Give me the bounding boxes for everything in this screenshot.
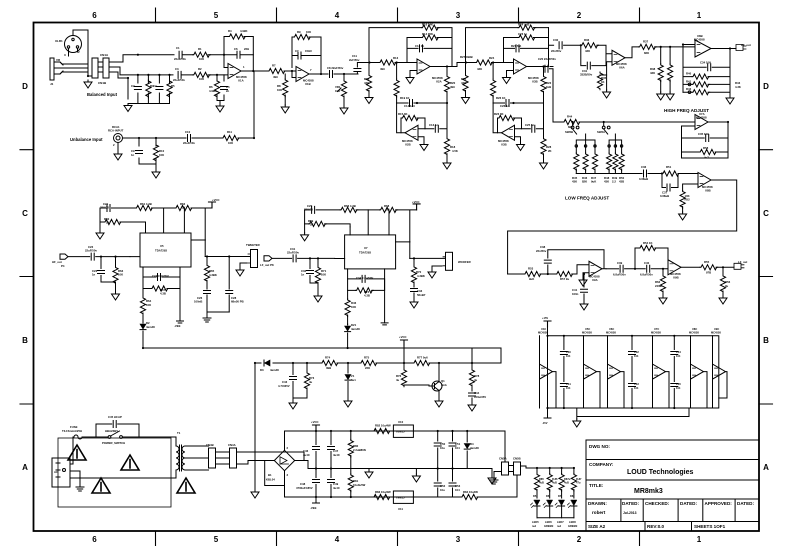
- svg-text:4.3K: 4.3K: [735, 85, 741, 89]
- feedback cap C6 22pF: [224, 55, 253, 71]
- svg-text:R84 10u4W: R84 10u4W: [463, 490, 478, 494]
- +in ground: [607, 62, 612, 90]
- neutral + earth: [70, 471, 176, 484]
- svg-text:C60: C60: [566, 350, 571, 354]
- svg-text:100n: 100n: [572, 292, 579, 296]
- svg-text:C4: C4: [153, 84, 157, 88]
- svg-text:D3: D3: [260, 368, 264, 372]
- svg-text:10K: 10K: [306, 30, 311, 34]
- gnd left of CN: [494, 472, 502, 478]
- resistor R1 top: [183, 54, 224, 56]
- svg-text:TITLE:: TITLE:: [589, 483, 604, 488]
- svg-text:4.99K: 4.99K: [209, 89, 216, 93]
- decoupling caps: [563, 336, 565, 350]
- resistor R5: [167, 80, 172, 98]
- svg-text:9uK: 9uK: [591, 180, 596, 184]
- svg-text:R15 3K: R15 3K: [398, 112, 407, 116]
- svg-text:SW2B: SW2B: [565, 130, 573, 134]
- svg-text:LED6: LED6: [545, 520, 552, 524]
- svg-text:10K: 10K: [159, 153, 164, 157]
- series resistor R82: [373, 428, 391, 433]
- svg-text:43K: 43K: [461, 81, 466, 85]
- svg-text:R16 24K: R16 24K: [422, 23, 433, 27]
- mid-rail ground: [368, 469, 370, 471]
- shunt C23/R63 to gnd: [100, 257, 102, 269]
- wires to filter: [115, 55, 174, 78]
- svg-text:-15V: -15V: [542, 421, 548, 425]
- svg-text:10u: 10u: [440, 446, 445, 450]
- svg-text:+VCC: +VCC: [311, 420, 319, 424]
- wires jack to CN boxes: [62, 30, 92, 76]
- svg-text:4.3BK: 4.3BK: [417, 274, 425, 278]
- svg-text:C8 22uF/50v: C8 22uF/50v: [327, 66, 344, 70]
- svg-text:C2: C2: [131, 84, 135, 88]
- svg-text:P4: P4: [61, 264, 65, 268]
- svg-text:Balanced Input: Balanced Input: [87, 92, 118, 97]
- svg-text:43K: 43K: [477, 67, 482, 71]
- svg-text:C40: C40: [644, 261, 650, 265]
- -15 caps: [437, 488, 439, 497]
- svg-text:D: D: [22, 82, 28, 91]
- resistor array 1: [576, 134, 595, 174]
- svg-text:WOOFER: WOOFER: [458, 260, 471, 264]
- svg-text:POWER_SWITCH: POWER_SWITCH: [102, 441, 125, 445]
- feed resistor R44: [553, 121, 563, 123]
- svg-text:4.3B: 4.3B: [364, 294, 370, 298]
- svg-text:R77 0u6: R77 0u6: [417, 356, 428, 360]
- top rail / bottom rail: [128, 75, 170, 104]
- output + feedback box: [508, 180, 737, 274]
- wire +15 to CN5A: [504, 431, 506, 462]
- svg-text:2uF/50v: 2uF/50v: [349, 58, 360, 62]
- svg-text:MC4558: MC4558: [538, 331, 548, 335]
- feedback resistor R54: [635, 248, 668, 269]
- title block: [586, 440, 759, 531]
- resistor R75: [360, 360, 378, 365]
- svg-text:B: B: [22, 336, 28, 345]
- svg-text:T3.15mmA/25H: T3.15mmA/25H: [62, 429, 82, 433]
- svg-text:56nB7: 56nB7: [417, 293, 426, 297]
- resistor R73 vertical: [306, 363, 308, 372]
- svg-text:+VCC: +VCC: [412, 200, 420, 204]
- stage2 output cap C20: [543, 66, 549, 68]
- svg-text:LF_out: LF_out: [738, 260, 747, 264]
- svg-text:22uF/50v: 22uF/50v: [85, 249, 97, 253]
- svg-text:3: 3: [456, 11, 461, 20]
- svg-text:4u4C: 4u4C: [333, 486, 340, 490]
- svg-text:3: 3: [456, 535, 461, 544]
- svg-text:R44: R44: [567, 115, 573, 119]
- +15 caps + diode: [437, 431, 439, 441]
- op-amp U1A: [228, 64, 241, 79]
- svg-text:T1: T1: [177, 431, 181, 435]
- power switch: [108, 436, 111, 439]
- svg-text:100nB: 100nB: [194, 300, 202, 304]
- svg-text:+VCC: +VCC: [212, 198, 220, 202]
- series cap C22: [91, 253, 94, 260]
- svg-text:LF_out P8: LF_out P8: [260, 263, 274, 267]
- svg-text:R58: R58: [703, 146, 709, 150]
- svg-text:B1: B1: [268, 473, 272, 477]
- svg-text:2K: 2K: [182, 206, 186, 210]
- shunt resistor + cap at right: [471, 363, 473, 369]
- svg-text:R61 4.3B: R61 4.3B: [140, 202, 152, 206]
- filter caps row 1: [315, 431, 317, 445]
- svg-text:R13: R13: [393, 56, 399, 60]
- output riser + series resistor R37: [625, 47, 639, 58]
- svg-text:D6: D6: [546, 494, 550, 498]
- svg-text:82K: 82K: [582, 180, 587, 184]
- svg-text:R.86: R.86: [552, 477, 558, 481]
- svg-text:2: 2: [577, 535, 582, 544]
- op-amp U9B: [668, 260, 681, 275]
- svg-text:104: 104: [455, 488, 460, 492]
- op-amp U7A (low freq): [695, 115, 708, 130]
- C9 / R10 to ground: [139, 138, 156, 170]
- shunt resistor at output: [722, 267, 724, 275]
- svg-text:DATED:: DATED:: [622, 501, 639, 506]
- svg-text:A: A: [763, 463, 769, 472]
- svg-text:U2B: U2B: [405, 143, 411, 147]
- vertical feed to PSU: [254, 363, 256, 438]
- svg-text:1n: 1n: [92, 273, 96, 277]
- op-amp U1B: [296, 67, 309, 82]
- svg-text:R66 4.3B: R66 4.3B: [344, 204, 356, 208]
- R35 vertical under opamp: [600, 74, 607, 76]
- svg-text:A: A: [22, 463, 28, 472]
- shunt resistor under inter-cap node: [662, 269, 664, 275]
- signal wire: [123, 137, 187, 139]
- svg-text:4.3B: 4.3B: [160, 292, 166, 296]
- TWEETER connector: [248, 250, 258, 268]
- svg-text:4.5K: 4.5K: [452, 149, 458, 153]
- +in shunt resistor to gnd: [683, 184, 698, 191]
- svg-text:U8B: U8B: [705, 188, 711, 192]
- svg-text:9u: 9u: [725, 284, 729, 288]
- svg-text:4am48: 4am48: [146, 325, 155, 329]
- series cap C30: [559, 42, 562, 49]
- ground: [84, 80, 92, 88]
- svg-text:C14 1n3: C14 1n3: [404, 104, 415, 108]
- svg-text:C23 1n: C23 1n: [518, 32, 527, 36]
- svg-text:10K: 10K: [228, 141, 233, 145]
- svg-text:4uB: 4uB: [552, 481, 557, 485]
- svg-text:43K: 43K: [572, 180, 577, 184]
- input resistor R53: [508, 273, 524, 275]
- bridge output wires: [285, 431, 431, 497]
- svg-text:U9B: U9B: [673, 276, 679, 280]
- svg-text:R75: R75: [364, 356, 370, 360]
- zener Z1: [347, 363, 349, 373]
- svg-text:U6A: U6A: [619, 65, 625, 69]
- svg-text:2K: 2K: [106, 221, 110, 225]
- svg-text:CN4A: CN4A: [228, 443, 236, 447]
- svg-text:104: 104: [634, 386, 639, 390]
- output to tweeter: [205, 256, 250, 258]
- resistor R36: [581, 43, 599, 48]
- lower jog + ground: [577, 408, 689, 419]
- svg-text:U4C: U4C: [541, 327, 546, 331]
- input wires: [217, 55, 228, 75]
- svg-text:R41: R41: [686, 79, 692, 83]
- svg-text:MC4558: MC4558: [651, 331, 661, 335]
- svg-text:U3B: U3B: [501, 143, 507, 147]
- svg-text:22U/25: 22U/25: [100, 206, 109, 210]
- svg-text:GREEN: GREEN: [568, 524, 577, 528]
- warning triangles: [68, 445, 86, 460]
- cap C2: [134, 87, 141, 90]
- svg-text:U9A: U9A: [592, 278, 598, 282]
- svg-text:C34 2.2u/50V: C34 2.2u/50V: [356, 276, 373, 280]
- svg-text:DATED:: DATED:: [680, 501, 697, 506]
- buffer amps: [540, 336, 728, 408]
- svg-text:4u4C: 4u4C: [333, 453, 340, 457]
- svg-text:82K: 82K: [644, 51, 649, 55]
- svg-text:LED8: LED8: [569, 520, 576, 524]
- svg-text:1K: 1K: [601, 80, 605, 84]
- svg-text:R40: R40: [686, 72, 692, 76]
- svg-text:10K: 10K: [146, 303, 151, 307]
- svg-text:C39: C39: [617, 261, 623, 265]
- RCA jack RCA1: [114, 134, 123, 143]
- svg-text:R54 1K: R54 1K: [643, 241, 652, 245]
- feedback ladder: [683, 45, 730, 93]
- svg-text:10K: 10K: [351, 305, 356, 309]
- svg-text:R24: R24: [489, 56, 495, 60]
- svg-text:4am48: 4am48: [351, 327, 360, 331]
- svg-text:4: 4: [335, 11, 340, 20]
- diode D3: [255, 362, 261, 364]
- connector CN4B / CN4A: [209, 448, 216, 468]
- svg-text:104: 104: [455, 446, 460, 450]
- svg-text:1kB: 1kB: [546, 85, 551, 89]
- +VCC feed: [401, 340, 408, 346]
- AC inlet: [52, 458, 70, 487]
- svg-text:10K: 10K: [118, 273, 123, 277]
- svg-text:R27 499B: R27 499B: [460, 55, 473, 59]
- shunt to gnd: [309, 258, 311, 268]
- svg-text:DWG NO:: DWG NO:: [589, 444, 610, 449]
- svg-text:R26 1K: R26 1K: [496, 96, 505, 100]
- +VCC bar: [313, 425, 320, 431]
- output wire: [241, 70, 268, 72]
- R8 10K vertical to ground: [284, 74, 286, 79]
- output to woofer: [410, 257, 446, 259]
- bottom leg diode to rail: [142, 322, 144, 323]
- resistor R76 vertical: [403, 363, 405, 369]
- svg-text:332B/50v: 332B/50v: [580, 73, 593, 77]
- svg-text:MR8mk3: MR8mk3: [634, 488, 663, 495]
- mute feed down to ground: [254, 438, 256, 490]
- svg-text:GREEN: GREEN: [544, 524, 553, 528]
- svg-text:C35 10H: C35 10H: [698, 132, 709, 136]
- svg-text:R83 10u/4W: R83 10u/4W: [375, 490, 391, 494]
- svg-text:104: 104: [676, 354, 681, 358]
- svg-text:C26 1n: C26 1n: [500, 104, 509, 108]
- svg-text:-VEE: -VEE: [310, 506, 317, 510]
- WOOFER connector: [443, 252, 453, 270]
- feedback resistor R9: [292, 37, 321, 56]
- wire stage1 out to stage2: [452, 63, 464, 67]
- series cap C3 bottom: [178, 71, 181, 78]
- svg-text:39B: 39B: [326, 366, 331, 370]
- transistor Q1: [432, 381, 442, 391]
- series cap C30: [293, 255, 296, 262]
- series resistor R83: [373, 494, 391, 499]
- svg-text:C25 5n: C25 5n: [525, 123, 534, 127]
- shunt resistors R38 R39 with grounds: [660, 47, 662, 92]
- svg-text:+15V: +15V: [542, 316, 548, 320]
- svg-text:499: 499: [450, 85, 455, 89]
- svg-text:10K: 10K: [199, 77, 204, 81]
- svg-text:TDA7293: TDA7293: [359, 251, 371, 255]
- regulator U10: [393, 425, 413, 437]
- series resistor R11: [192, 71, 254, 138]
- svg-text:C34 10H: C34 10H: [700, 61, 711, 65]
- HF_OUT plug: [736, 45, 746, 51]
- feedback cap C7: [292, 56, 321, 75]
- top interconnect wire to HF section: [549, 28, 554, 46]
- svg-text:COMPANY:: COMPANY:: [589, 462, 614, 467]
- svg-text:SW2A: SW2A: [597, 130, 605, 134]
- svg-text:R1: R1: [198, 47, 202, 51]
- svg-text:22U/25: 22U/25: [304, 208, 313, 212]
- svg-text:5: 5: [214, 535, 219, 544]
- svg-text:R85: R85: [539, 477, 544, 481]
- input plug LF arrow: [60, 254, 68, 259]
- svg-text:4700uFC85V: 4700uFC85V: [296, 486, 313, 490]
- resistor R77: [413, 360, 431, 365]
- svg-text:R19 1K: R19 1K: [400, 96, 409, 100]
- feedback cap C35: [682, 137, 729, 139]
- series cap C1 top: [179, 51, 182, 58]
- svg-text:red: red: [557, 524, 561, 528]
- svg-text:6.8uF/50v: 6.8uF/50v: [613, 273, 626, 277]
- svg-text:R55: R55: [704, 260, 710, 264]
- svg-text:4.99K: 4.99K: [240, 29, 247, 33]
- svg-text:R74: R74: [325, 356, 331, 360]
- svg-text:U7: U7: [364, 246, 368, 250]
- svg-text:DATED:: DATED:: [737, 501, 754, 506]
- svg-text:MC4558: MC4558: [696, 116, 707, 120]
- svg-text:TDA7293: TDA7293: [155, 249, 167, 253]
- svg-text:4: 4: [335, 535, 340, 544]
- svg-text:78M15: 78M15: [396, 430, 405, 434]
- cap C43: [292, 363, 294, 375]
- svg-text:R87u: R87u: [564, 477, 571, 481]
- cap C31 loop: [581, 45, 606, 65]
- svg-text:Unbalance Input: Unbalance Input: [70, 137, 103, 142]
- svg-text:R37: R37: [643, 40, 649, 44]
- svg-text:U6C: U6C: [609, 327, 614, 331]
- svg-text:9uK: 9uK: [529, 277, 534, 281]
- fuse: [70, 435, 82, 464]
- svg-text:10K: 10K: [277, 88, 282, 92]
- svg-text:22n/50v: 22n/50v: [551, 49, 562, 53]
- svg-text:4u: 4u: [309, 380, 313, 384]
- resistor R3: [146, 80, 151, 98]
- svg-text:C30: C30: [553, 38, 559, 42]
- svg-text:C: C: [22, 209, 28, 218]
- svg-text:C61: C61: [566, 382, 571, 386]
- +15V / -15V bars: [544, 321, 551, 327]
- svg-text:R82 10u/4W: R82 10u/4W: [375, 424, 391, 428]
- svg-text:43K: 43K: [604, 180, 609, 184]
- svg-text:DRAWN:: DRAWN:: [588, 501, 607, 506]
- svg-text:C12 1n: C12 1n: [415, 44, 424, 48]
- connectors CN5A CN5B: [502, 462, 509, 475]
- svg-text:J1: J1: [50, 82, 54, 86]
- svg-text:22uF/50v: 22uF/50v: [183, 141, 195, 145]
- secondary wires to CN: [185, 446, 209, 470]
- svg-text:MC4558: MC4558: [689, 331, 699, 335]
- interstage wiring: [452, 28, 554, 122]
- output + series cap C8: [309, 73, 328, 75]
- svg-text:REV:0.0: REV:0.0: [647, 524, 665, 529]
- svg-text:C62: C62: [634, 350, 639, 354]
- bridge rectifier B1: [274, 450, 294, 470]
- svg-text:4.3BK: 4.3BK: [209, 273, 217, 277]
- svg-text:U1A: U1A: [238, 78, 244, 82]
- svg-text:R52: R52: [685, 198, 691, 202]
- svg-text:LED5: LED5: [532, 520, 539, 524]
- svg-text:U3B: U3B: [532, 80, 538, 84]
- svg-text:APPROVED:: APPROVED:: [705, 501, 733, 506]
- switch SW1A: [603, 122, 605, 126]
- svg-text:CN1B: CN1B: [98, 81, 107, 85]
- svg-text:10u: 10u: [440, 488, 445, 492]
- svg-text:+VCC: +VCC: [399, 335, 407, 339]
- svg-text:43K: 43K: [650, 71, 655, 75]
- svg-text:10K: 10K: [335, 89, 340, 93]
- svg-text:1n: 1n: [301, 273, 305, 277]
- svg-text:2K: 2K: [386, 208, 390, 212]
- svg-text:U5C: U5C: [585, 327, 590, 331]
- resistor array 2: [609, 134, 622, 174]
- svg-text:10K: 10K: [321, 273, 326, 277]
- input plug: [264, 256, 272, 261]
- svg-text:R51: R51: [666, 165, 672, 169]
- svg-text:R23 3K: R23 3K: [494, 112, 503, 116]
- svg-text:R36: R36: [584, 38, 590, 42]
- svg-text:4u4C: 4u4C: [303, 453, 310, 457]
- big op-amp U8: [695, 40, 711, 57]
- svg-text:100u/35V: 100u/35V: [474, 395, 486, 399]
- svg-text:R.87: R.87: [576, 477, 582, 481]
- bottom leg diode to rail: [347, 324, 349, 325]
- svg-text:R7: R7: [272, 64, 276, 68]
- balanced jack J1: [50, 58, 63, 86]
- svg-text:4u7: 4u7: [704, 156, 709, 160]
- svg-text:U5: U5: [160, 244, 164, 248]
- svg-text:KBL04: KBL04: [266, 478, 275, 482]
- svg-text:4uB: 4uB: [564, 481, 569, 485]
- svg-text:R11: R11: [227, 130, 232, 134]
- svg-text:22n/50v: 22n/50v: [536, 249, 547, 253]
- svg-text:CN1A: CN1A: [100, 53, 109, 57]
- enclosure box: [58, 438, 171, 507]
- svg-text:U8C: U8C: [692, 327, 697, 331]
- wires to bridge: [237, 452, 305, 464]
- svg-text:79M15: 79M15: [396, 496, 405, 500]
- series cap C10: [188, 135, 191, 142]
- svg-text:LED7: LED7: [557, 520, 564, 524]
- svg-text:RCA-INPUT: RCA-INPUT: [108, 129, 124, 133]
- svg-text:2.2uB80N: 2.2uB80N: [353, 448, 366, 452]
- svg-text:C45 HCAP: C45 HCAP: [108, 415, 122, 419]
- svg-text:MC4558: MC4558: [711, 331, 721, 335]
- svg-text:R14 75K: R14 75K: [422, 32, 433, 36]
